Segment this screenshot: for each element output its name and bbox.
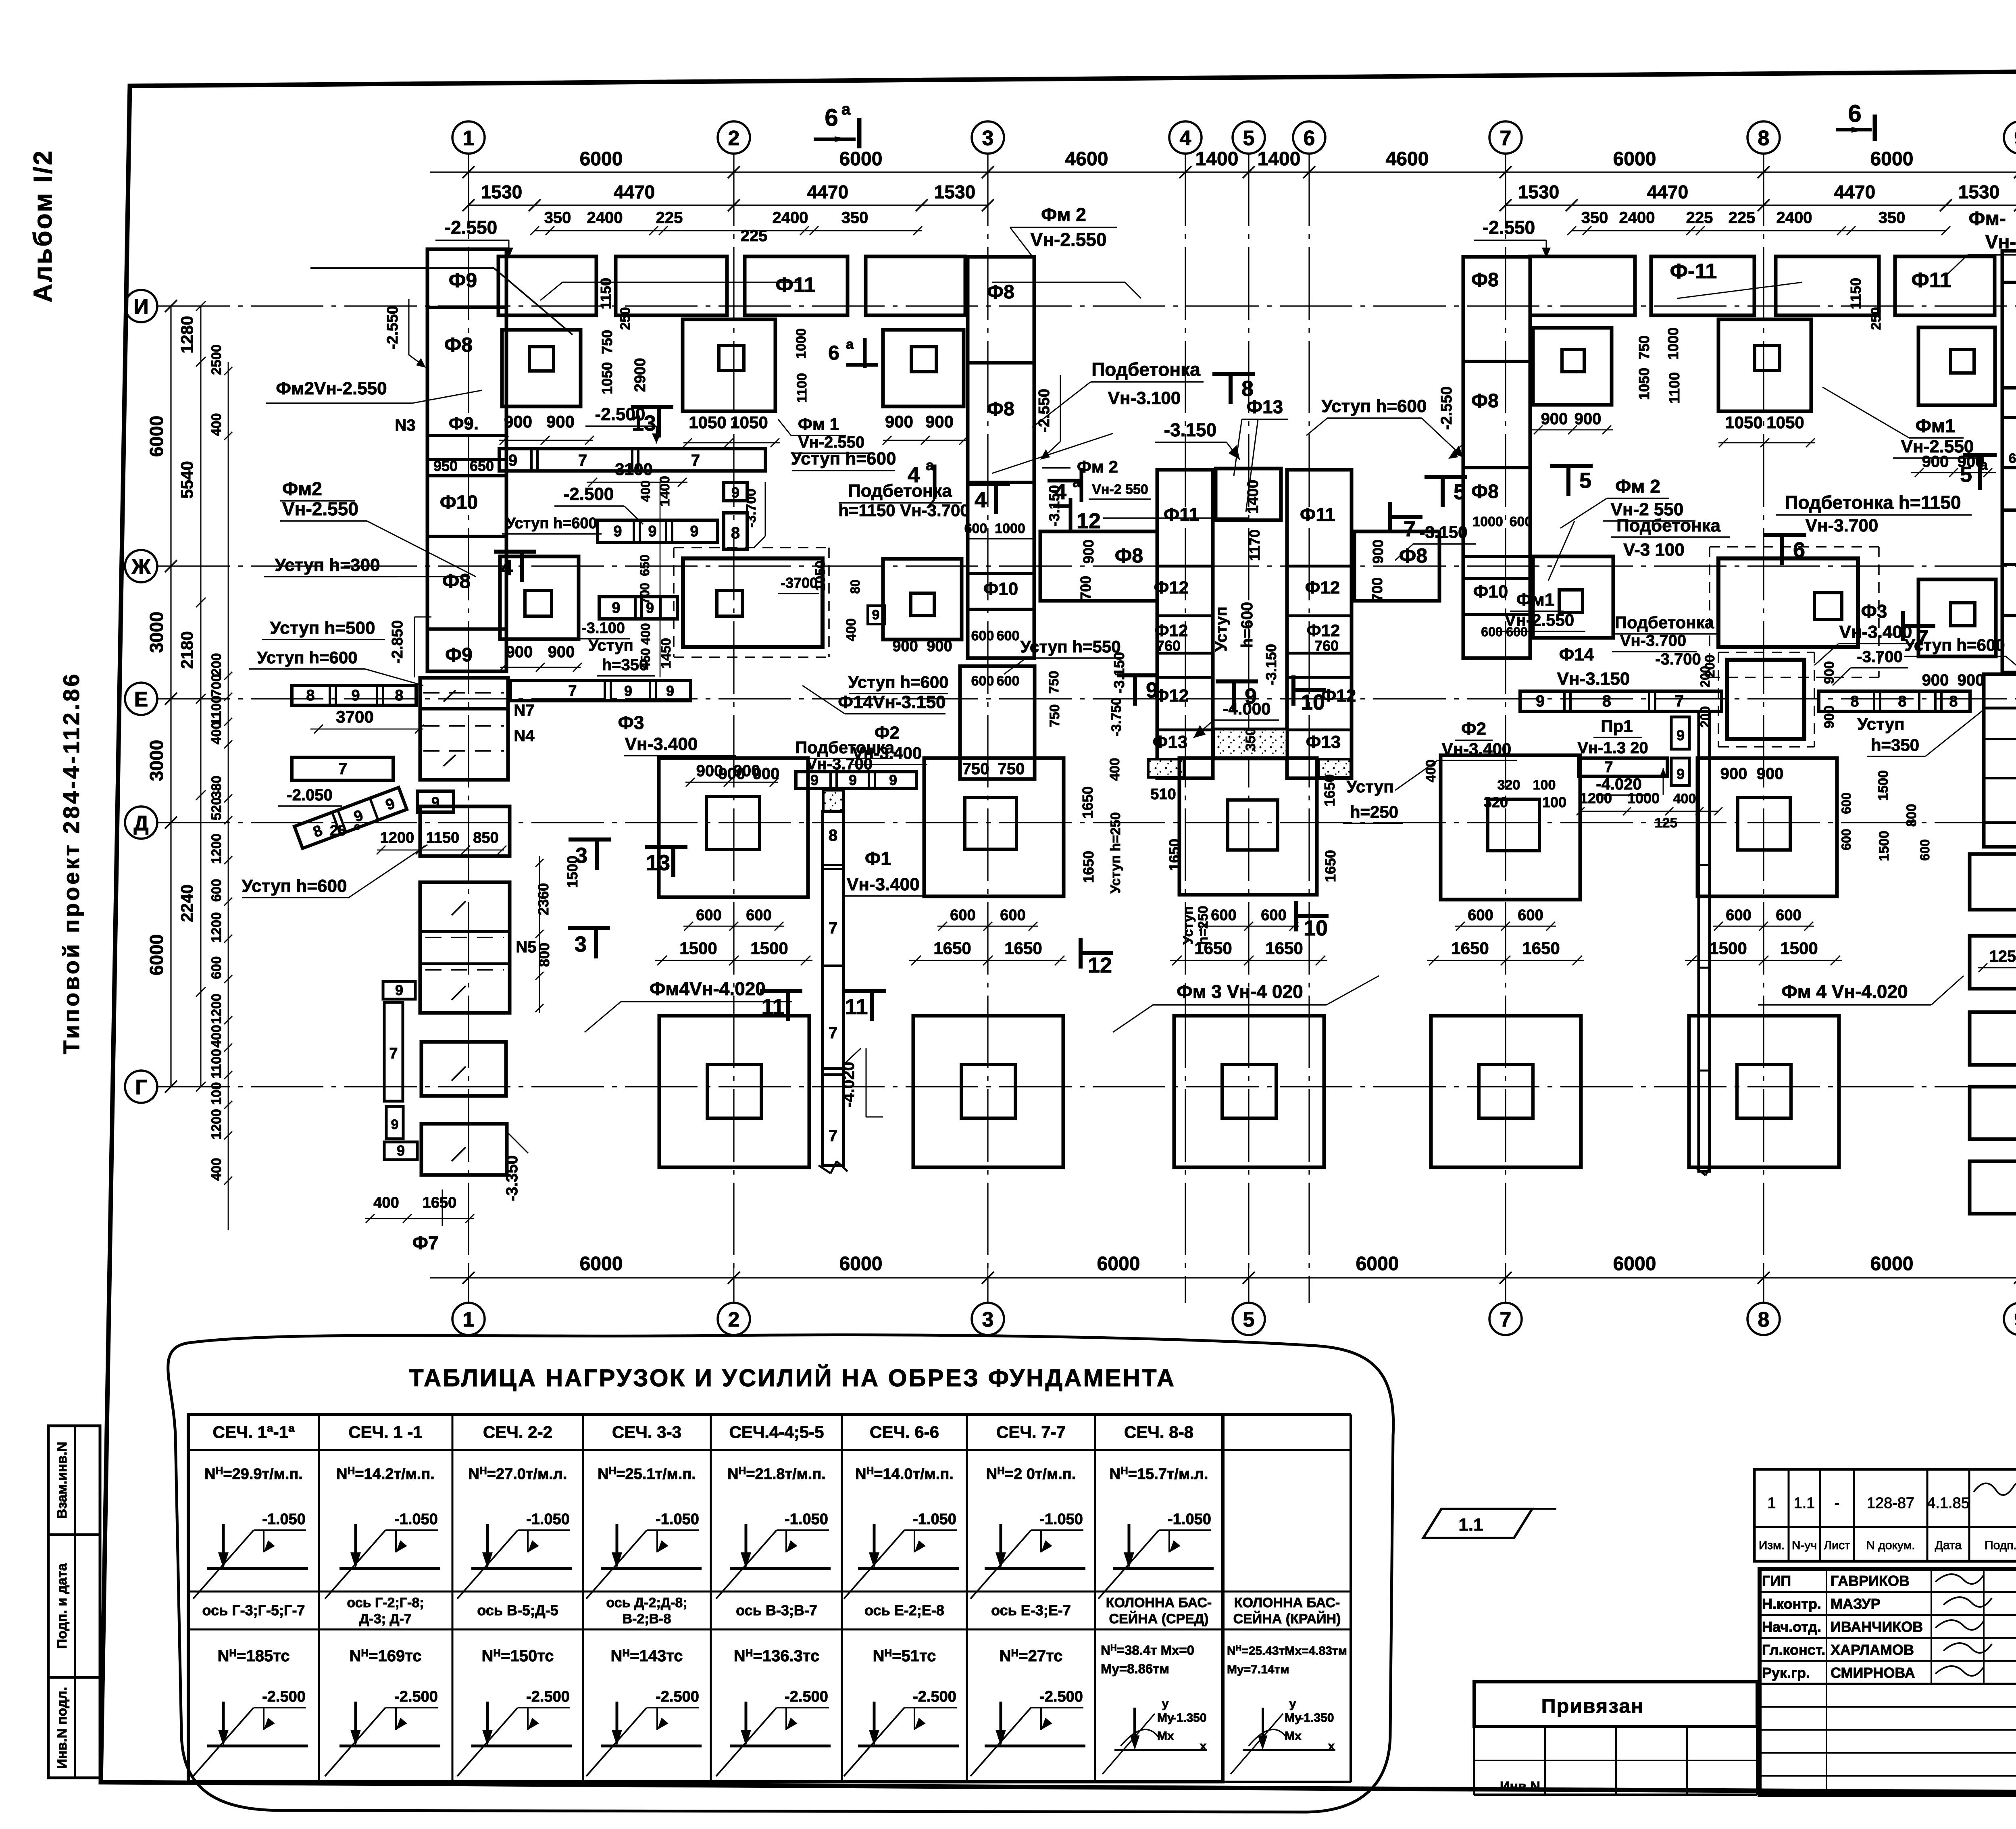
svg-text:750: 750 [1636,335,1652,360]
svg-text:a: a [846,337,854,352]
svg-text:h=600: h=600 [1238,602,1256,648]
svg-text:Vн-3.700: Vн-3.700 [1620,632,1686,650]
svg-text:1200: 1200 [209,1109,224,1139]
vertical axis grid lines [468,154,469,1303]
strip column V4 (axis 9 right) [2002,251,2016,673]
svg-text:4470: 4470 [1834,181,1875,202]
svg-text:Vн-3.700: Vн-3.700 [1806,516,1879,535]
small 9 box [868,606,885,624]
svg-text:1100: 1100 [209,1049,224,1079]
svg-text:4470: 4470 [807,181,848,202]
svg-text:9: 9 [1146,678,1158,702]
svg-text:6000: 6000 [1870,1253,1914,1275]
svg-text:1650: 1650 [1322,850,1339,882]
svg-text:-3.750: -3.750 [1109,698,1124,736]
svg-text:Ф11: Ф11 [1300,504,1335,525]
top dimension chain row 3 [535,230,922,231]
svg-text:650: 650 [637,554,652,576]
svg-text:1650: 1650 [1265,939,1303,958]
svg-text:Ф2: Ф2 [875,723,900,743]
svg-text:900: 900 [885,412,913,431]
svg-text:-2.500: -2.500 [1039,1688,1083,1705]
svg-text:400: 400 [1107,758,1123,781]
svg-text:5: 5 [1243,127,1255,150]
svg-text:750: 750 [962,760,989,778]
svg-text:225: 225 [656,209,683,227]
svg-text:Уступ: Уступ [1212,606,1230,652]
svg-text:400: 400 [209,1025,224,1048]
svg-text:NH=25.43тМх=4.83тм: NH=25.43тМх=4.83тм [1227,1644,1347,1658]
left axis circles [125,290,157,322]
svg-text:Ф13: Ф13 [1153,732,1188,752]
svg-text:900: 900 [548,643,575,661]
svg-text:380: 380 [209,776,224,799]
strip 9-7-7 under row1 [499,449,765,471]
svg-text:4: 4 [501,556,513,580]
pad below Г [421,1124,507,1175]
lower 7 strip right [1579,758,1667,776]
svg-text:Vн-2.550: Vн-2.550 [798,433,864,451]
svg-text:1050: 1050 [599,362,615,394]
svg-text:Уступ h=600: Уступ h=600 [1904,635,2005,654]
svg-text:И: И [133,295,148,319]
svg-text:-2.050: -2.050 [287,786,332,804]
svg-text:10: 10 [1304,916,1328,940]
svg-text:h=350: h=350 [1871,735,1919,754]
svg-text:11: 11 [761,995,784,1019]
right lower blocks [1970,854,2016,910]
svg-text:Подбетонка: Подбетонка [1615,613,1714,632]
svg-text:5: 5 [1243,1308,1255,1331]
svg-text:V-3 100: V-3 100 [1623,540,1685,560]
svg-text:900: 900 [753,765,780,783]
svg-text:600: 600 [997,673,1020,689]
svg-text:3100: 3100 [615,460,652,479]
svg-text:650: 650 [2009,451,2016,466]
svg-text:600: 600 [1518,907,1543,924]
svg-text:Ф12: Ф12 [1154,686,1189,706]
G-row pads [659,1016,809,1167]
svg-text:900: 900 [925,412,954,431]
svg-text:1650: 1650 [933,939,971,958]
svg-text:N-уч: N-уч [1792,1539,1817,1552]
strip 8--8-8 right [1819,691,1970,711]
svg-text:-3.700: -3.700 [1655,650,1701,668]
svg-text:600: 600 [209,879,224,902]
svg-text:СЕЧ. 7-7: СЕЧ. 7-7 [996,1423,1066,1442]
svg-text:1400: 1400 [1258,148,1301,170]
svg-text:o: o [354,820,360,832]
svg-text:400: 400 [638,623,653,644]
svg-text:4600: 4600 [1065,148,1108,170]
svg-text:у: у [1162,1697,1169,1710]
svg-text:Уступ h=550: Уступ h=550 [1020,637,1120,656]
svg-text:Мх: Мх [1157,1729,1174,1743]
svg-text:900: 900 [1922,671,1949,689]
svg-text:9: 9 [849,772,857,788]
svg-text:9: 9 [2014,127,2016,150]
svg-text:100: 100 [1533,777,1556,793]
svg-text:1200: 1200 [380,829,414,846]
svg-text:4: 4 [1054,480,1066,504]
svg-text:900: 900 [1822,661,1837,684]
svg-text:6: 6 [825,104,838,131]
svg-text:900: 900 [1958,671,1985,689]
svg-text:ось Г-2;Г-8;: ось Г-2;Г-8; [347,1595,424,1610]
svg-text:4: 4 [975,488,987,512]
svg-text:1150: 1150 [598,278,614,309]
1.1 flag [1423,1509,1532,1538]
svg-text:6000: 6000 [1613,1253,1656,1275]
svg-text:Типовой проект 284-4-112.86: Типовой проект 284-4-112.86 [58,672,84,1054]
svg-text:1: 1 [1767,1495,1776,1512]
strip column V3 (left of axis 7) [1463,257,1530,658]
svg-text:СЕЧ. 8-8: СЕЧ. 8-8 [1124,1423,1193,1442]
svg-text:128-87: 128-87 [1867,1495,1914,1512]
svg-text:Ф8: Ф8 [987,398,1014,420]
svg-text:Ф9.: Ф9. [449,414,479,433]
svg-text:Уступ h=600: Уступ h=600 [506,515,597,532]
svg-text:1100: 1100 [1666,372,1683,404]
svg-text:900: 900 [506,643,533,661]
svg-text:9: 9 [810,772,818,788]
svg-text:1200: 1200 [209,912,224,943]
svg-text:7: 7 [1675,692,1684,710]
svg-text:9: 9 [351,687,360,704]
svg-text:200: 200 [1698,706,1712,727]
svg-text:320: 320 [1484,794,1508,810]
svg-text:2240: 2240 [177,884,196,922]
svg-text:600: 600 [1839,829,1854,850]
dash framed pad at A8/E [1718,652,1814,653]
svg-text:4600: 4600 [1386,148,1429,170]
svg-text:900: 900 [1574,410,1602,428]
svg-text:Фм1: Фм1 [1916,415,1956,436]
svg-text:ХАРЛАМОВ: ХАРЛАМОВ [1831,1642,1914,1658]
svg-text:Дата: Дата [1935,1539,1962,1552]
svg-text:Подбетонка: Подбетонка [1091,359,1200,380]
svg-text:1050: 1050 [1766,413,1804,432]
svg-text:600: 600 [1261,907,1286,924]
svg-text:400: 400 [373,1194,399,1211]
svg-text:-2.550: -2.550 [384,306,401,349]
svg-text:Vн-3.400: Vн-3.400 [1442,740,1511,758]
svg-text:-2.500: -2.500 [785,1688,828,1705]
svg-text:Му: Му [1157,1711,1174,1725]
svg-text:Vн-2.550: Vн-2.550 [1901,437,1974,456]
svg-text:-3.150: -3.150 [1263,644,1279,685]
load diagrams row2 [207,1567,308,1570]
svg-text:9: 9 [613,523,622,540]
svg-text:900: 900 [892,638,918,655]
svg-text:-1.050: -1.050 [656,1511,699,1528]
svg-text:Фм2: Фм2 [282,478,322,499]
svg-text:2: 2 [728,127,740,150]
svg-text:510: 510 [1150,786,1176,803]
svg-text:350: 350 [841,209,868,227]
svg-text:МАЗУР: МАЗУР [1831,1596,1881,1612]
svg-text:7: 7 [338,760,347,778]
svg-text:9: 9 [397,1142,405,1159]
wall strip S1 [823,811,843,1165]
svg-text:200: 200 [1698,666,1712,687]
svg-text:7: 7 [829,919,837,937]
svg-text:6000: 6000 [1097,1253,1140,1275]
svg-text:350: 350 [1581,209,1608,227]
svg-text:N докум.: N докум. [1866,1539,1915,1552]
svg-text:Ф12: Ф12 [1305,578,1340,598]
wide F8 pad left [1040,531,1157,601]
svg-text:900: 900 [719,765,746,783]
svg-text:400: 400 [843,619,859,642]
svg-text:Ф7: Ф7 [412,1232,439,1253]
svg-text:250: 250 [618,307,633,330]
svg-text:600: 600 [1211,907,1236,924]
svg-text:225: 225 [1686,209,1713,227]
svg-text:-2.500: -2.500 [526,1688,570,1705]
svg-text:600: 600 [997,628,1020,644]
top strip footings row [498,256,596,315]
svg-text:760: 760 [1314,637,1339,654]
svg-text:-2.500: -2.500 [913,1688,956,1705]
svg-text:Ф14: Ф14 [1559,645,1594,665]
horizontal axis grid lines [157,305,2016,306]
svg-text:1150: 1150 [1847,278,1864,309]
svg-text:1000: 1000 [995,521,1025,536]
svg-text:Vн-3.150: Vн-3.150 [1557,669,1630,689]
load table bubble outline [168,1335,1393,1812]
svg-text:10: 10 [1301,690,1325,715]
svg-text:4.1.85: 4.1.85 [1927,1495,1970,1512]
svg-text:Ф8: Ф8 [987,281,1014,303]
svg-text:3000: 3000 [146,740,167,781]
svg-text:6: 6 [828,342,839,364]
svg-text:Гл.конст.: Гл.конст. [1762,1642,1825,1658]
svg-text:-2.500: -2.500 [394,1688,438,1705]
svg-text:900: 900 [504,412,532,431]
svg-text:Vн-3.400: Vн-3.400 [1839,622,1912,642]
svg-text:700: 700 [209,674,224,697]
svg-text:Подп.: Подп. [1985,1539,2016,1552]
pad row 2 right group [1533,556,1613,638]
wall strip V5 [1699,712,1710,1171]
svg-text:600: 600 [1726,907,1751,924]
svg-text:СМИРНОВА: СМИРНОВА [1831,1664,1915,1681]
left dim chain 2 [200,306,202,1087]
svg-text:Рук.гр.: Рук.гр. [1762,1664,1810,1681]
svg-text:8: 8 [1898,693,1906,710]
svg-text:9: 9 [1677,766,1685,782]
svg-text:350: 350 [1243,728,1258,751]
svg-text:Фм-: Фм- [1969,208,2006,229]
svg-text:Vн-2.550: Vн-2.550 [1505,610,1574,629]
svg-text:Уступ h=600: Уступ h=600 [257,648,357,667]
svg-text:25: 25 [330,822,346,839]
svg-text:400: 400 [209,722,224,745]
svg-text:1650: 1650 [1079,786,1096,819]
svg-text:3000: 3000 [146,612,167,653]
svg-text:600: 600 [1918,839,1932,860]
svg-text:a: a [841,100,851,118]
svg-text:Ф10: Ф10 [983,579,1018,599]
svg-text:760: 760 [1156,637,1181,654]
svg-text:-2.500: -2.500 [656,1688,699,1705]
svg-text:Подбетонка h=1150: Подбетонка h=1150 [1785,492,1961,513]
svg-text:Ф14Vн-3.150: Ф14Vн-3.150 [838,692,946,712]
svg-text:2360: 2360 [535,883,552,915]
svg-text:1400: 1400 [1245,480,1262,514]
svg-text:400: 400 [209,413,224,436]
svg-text:9: 9 [1677,727,1685,744]
svg-text:Взам.инв.N: Взам.инв.N [54,1442,70,1519]
svg-text:800: 800 [536,943,552,967]
svg-text:-3.350: -3.350 [503,1155,521,1201]
svg-text:1000: 1000 [1665,327,1681,360]
svg-text:9: 9 [690,523,698,540]
svg-text:x: x [1200,1739,1207,1753]
svg-text:Ф10: Ф10 [1473,582,1508,602]
svg-text:1: 1 [463,127,475,150]
main title block [1760,1569,2016,1795]
svg-text:2400: 2400 [587,209,623,227]
svg-text:Ф11: Ф11 [1164,504,1199,525]
strip 9-8-7 right [1520,691,1722,711]
svg-text:Ф8: Ф8 [1399,544,1427,567]
svg-text:-1.050: -1.050 [1168,1511,1211,1528]
svg-text:Д-3; Д-7: Д-3; Д-7 [359,1611,412,1627]
svg-text:Подп. и дата: Подп. и дата [54,1563,70,1649]
svg-text:-2.550: -2.550 [1483,217,1535,238]
svg-text:1530: 1530 [1518,181,1559,202]
svg-text:9: 9 [731,484,739,501]
svg-text:9: 9 [2014,1308,2016,1331]
svg-text:ось Е-2;Е-8: ось Е-2;Е-8 [864,1602,944,1619]
svg-text:600: 600 [971,673,994,689]
svg-text:125: 125 [1655,815,1678,831]
svg-text:КОЛОННА БАС-: КОЛОННА БАС- [1234,1595,1340,1610]
svg-text:-1.350: -1.350 [1172,1711,1206,1725]
svg-text:520: 520 [209,798,224,821]
svg-text:Подбетонка: Подбетонка [1616,516,1720,535]
tall block below D (N5) [420,882,510,1013]
svg-text:5540: 5540 [177,461,196,498]
svg-text:Ф10: Ф10 [440,492,478,513]
svg-text:Ф9: Ф9 [449,269,477,292]
left dim chain 1 [170,306,171,1087]
svg-text:400: 400 [1423,760,1439,783]
svg-text:Фм 2: Фм 2 [1077,457,1118,476]
svg-text:3700: 3700 [336,707,373,726]
svg-text:Му=7.14тм: Му=7.14тм [1227,1663,1289,1676]
svg-text:6000: 6000 [1613,148,1656,170]
strip 9-9-9 upper [598,520,718,542]
svg-text:Vн-2.550: Vн-2.550 [282,498,358,519]
svg-text:Ф8: Ф8 [444,333,473,356]
svg-text:8: 8 [1949,693,1958,710]
svg-text:1650: 1650 [1166,839,1183,871]
leader from album corner [310,267,494,269]
pad row 1 foundations [502,330,581,406]
svg-text:1450: 1450 [658,638,674,669]
svg-text:250: 250 [1868,307,1884,330]
svg-text:Д: Д [133,812,148,835]
svg-text:Ф11: Ф11 [1911,269,1951,292]
svg-text:2: 2 [728,1308,740,1331]
svg-text:600: 600 [1468,907,1493,924]
svg-text:1050: 1050 [689,413,726,432]
svg-text:5: 5 [1454,480,1466,504]
svg-text:Vн-3.100: Vн-3.100 [1108,388,1181,408]
svg-text:Пр1: Пр1 [1601,717,1633,735]
svg-text:1250: 1250 [1989,948,2016,965]
svg-text:Фм 2: Фм 2 [1615,476,1660,497]
svg-text:7: 7 [578,452,587,469]
svg-text:7: 7 [829,1024,837,1042]
svg-text:800: 800 [1904,804,1919,827]
svg-text:7: 7 [691,452,700,469]
svg-text:Ф-11: Ф-11 [1670,260,1717,283]
svg-text:1530: 1530 [1958,181,1999,202]
svg-text:Му=8.86тм: Му=8.86тм [1101,1661,1169,1676]
svg-text:8: 8 [1758,1308,1770,1331]
svg-text:5: 5 [1960,462,1972,487]
svg-text:Уступ h=600: Уступ h=600 [848,673,948,692]
svg-text:1050: 1050 [730,413,768,432]
svg-text:Ф12: Ф12 [1155,621,1188,640]
svg-text:-2.500: -2.500 [262,1688,306,1705]
svg-text:Уступ h=500: Уступ h=500 [270,618,375,638]
svg-text:ось В-5;Д-5: ось В-5;Д-5 [477,1602,558,1619]
svg-text:1050: 1050 [1636,368,1652,400]
svg-text:3: 3 [575,932,587,956]
svg-text:6000: 6000 [1356,1253,1399,1275]
svg-text:СЕЧ. 6-6: СЕЧ. 6-6 [870,1423,939,1442]
svg-text:850: 850 [473,829,498,846]
svg-text:200: 200 [209,653,224,676]
wide F8 pad right [1354,531,1439,601]
svg-text:1650: 1650 [1194,939,1232,958]
svg-text:1.1: 1.1 [1794,1495,1815,1512]
svg-text:1000: 1000 [793,328,809,359]
svg-text:Ф11: Ф11 [775,273,815,297]
svg-text:12: 12 [1077,509,1101,533]
S1 break mark [818,1165,831,1173]
svg-text:СЕЧ. 3-3: СЕЧ. 3-3 [612,1423,681,1442]
privyazan box [1474,1682,1757,1727]
svg-text:900: 900 [1541,410,1568,428]
left margin stamp boxes [48,1426,100,1778]
svg-text:9: 9 [889,772,897,788]
svg-text:6: 6 [1848,100,1861,127]
svg-text:1170: 1170 [1246,529,1263,561]
svg-text:900: 900 [1822,706,1837,729]
svg-text:900: 900 [1720,765,1747,783]
svg-text:9: 9 [395,982,403,998]
top dimension chain row 2 [469,204,988,206]
svg-text:2400: 2400 [1619,209,1655,227]
svg-text:ТАБЛИЦА НАГРУЗОК И УСИЛИЙ: ТАБЛИЦА НАГРУЗОК И УСИЛИЙ НА ОБРЕЗ ФУНДА… [409,1364,1176,1392]
diagonal strip 8-9-9 [294,787,407,848]
svg-text:1100: 1100 [209,696,224,725]
svg-text:2500: 2500 [209,344,224,375]
svg-text:7: 7 [1604,759,1613,776]
svg-text:Ф8: Ф8 [1471,269,1499,291]
svg-text:Ф12: Ф12 [1321,686,1356,706]
svg-text:7: 7 [389,1045,398,1062]
svg-text:ось Г-3;Г-5;Г-7: ось Г-3;Г-5;Г-7 [202,1602,305,1619]
svg-text:Vн-2 550: Vн-2 550 [1092,482,1148,497]
svg-text:700: 700 [637,583,652,604]
